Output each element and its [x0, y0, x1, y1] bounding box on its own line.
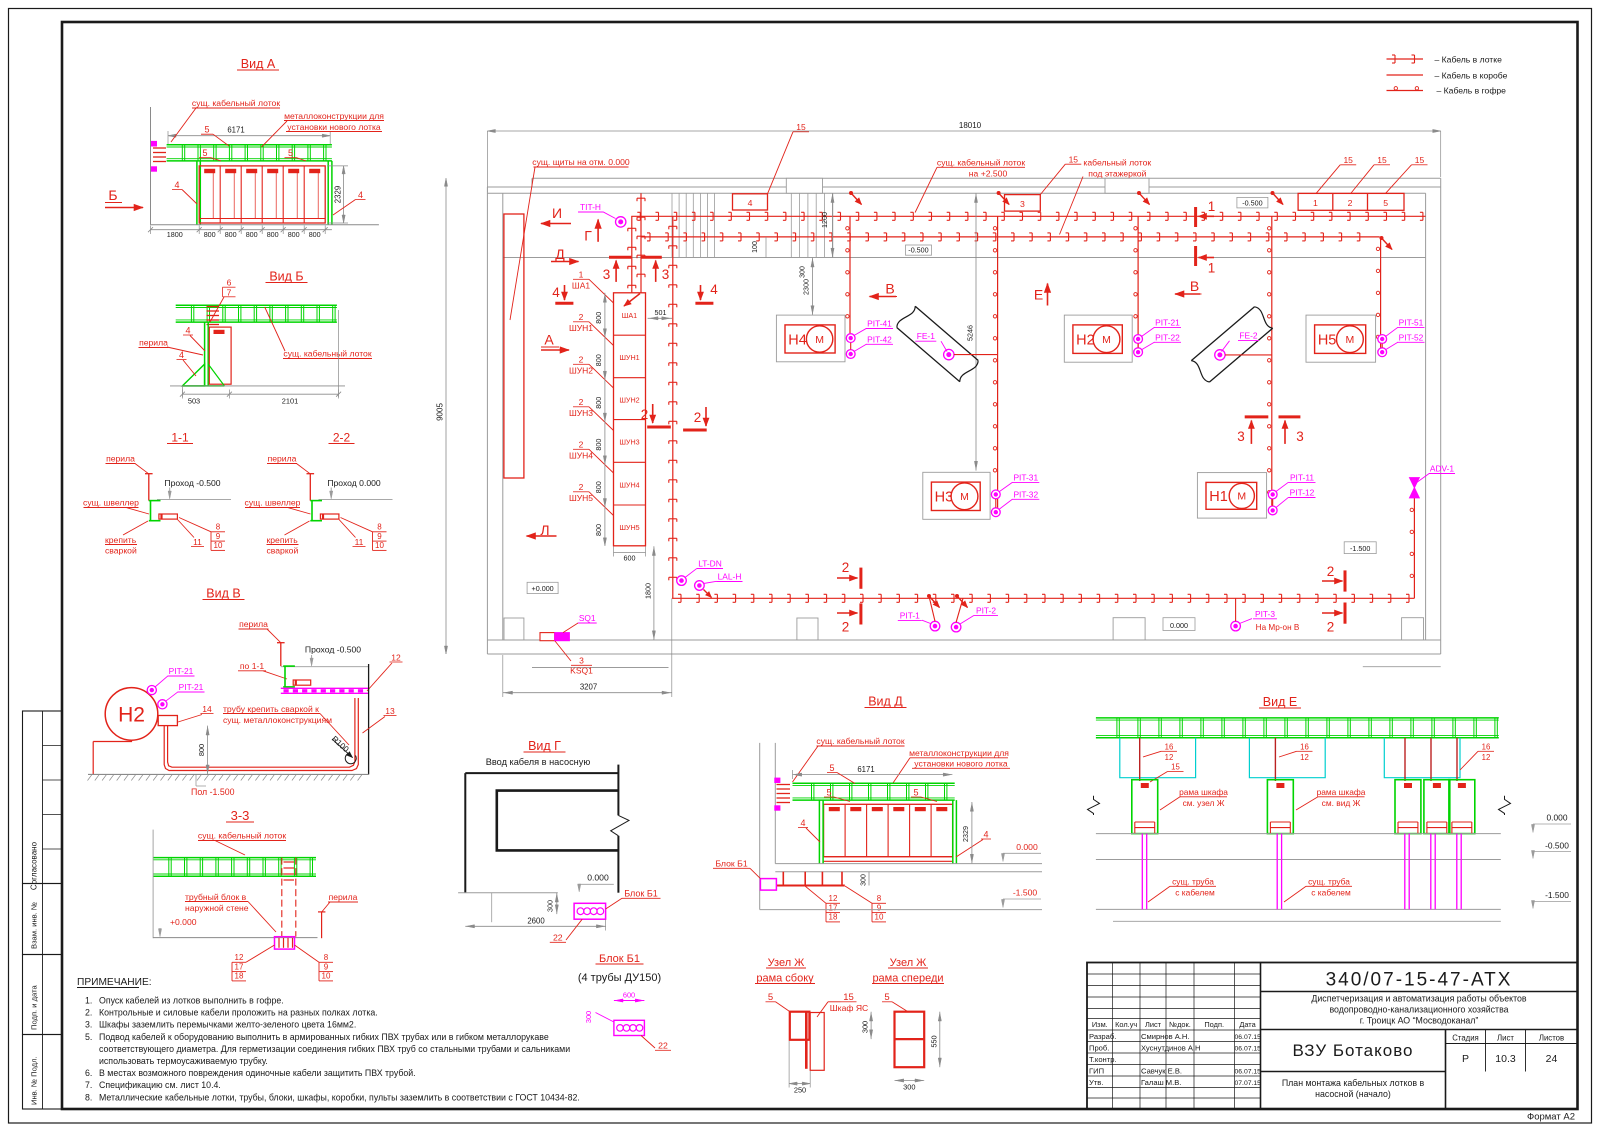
svg-text:4: 4 [800, 818, 805, 828]
svg-text:600: 600 [623, 991, 635, 1000]
svg-text:Лист: Лист [1145, 1020, 1162, 1029]
plan motor H5 [1306, 315, 1376, 362]
svg-text:Блок Б1: Блок Б1 [599, 953, 640, 965]
svg-text:300: 300 [800, 266, 807, 278]
plan bottom wall [487, 639, 1440, 641]
svg-text:Т.контр.: Т.контр. [1089, 1055, 1117, 1064]
svg-text:18010: 18010 [959, 121, 982, 130]
svg-text:сущ. кабельный лоток: сущ. кабельный лоток [192, 98, 280, 108]
plan level 0.000 [1163, 618, 1195, 631]
svg-text:3-3: 3-3 [231, 808, 250, 823]
svg-text:15: 15 [843, 992, 854, 1003]
plan level -0.500 a [906, 245, 932, 255]
legend cable in tray [1387, 58, 1424, 60]
view D conduit block magenta [760, 879, 776, 891]
plan instrument FE-1 [944, 349, 954, 359]
svg-text:Вид Б: Вид Б [269, 270, 303, 284]
svg-text:В: В [1190, 278, 1199, 294]
svg-text:План монтажа кабельных лотков: План монтажа кабельных лотков в [1282, 1078, 1425, 1088]
svg-text:на +2.500: на +2.500 [969, 168, 1008, 178]
svg-text:с кабелем: с кабелем [1311, 888, 1351, 898]
view V channel [283, 665, 295, 667]
svg-text:ГИП: ГИП [1089, 1067, 1104, 1076]
section 3-3 floor line [153, 937, 317, 939]
svg-text:Спецификацию см. лист 10.4.: Спецификацию см. лист 10.4. [99, 1080, 221, 1090]
svg-text:№док.: №док. [1169, 1020, 1191, 1029]
node Zh front frame [895, 1012, 925, 1067]
svg-text:4: 4 [185, 326, 190, 336]
view A ground line [151, 224, 379, 226]
svg-text:Н1: Н1 [1209, 489, 1228, 505]
svg-text:TIT-H: TIT-H [580, 202, 601, 212]
plan dim 501 [648, 317, 672, 319]
svg-text:сущ. кабельный лоток: сущ. кабельный лоток [937, 158, 1025, 168]
svg-text:перила: перила [106, 454, 135, 464]
svg-text:Н5: Н5 [1318, 333, 1337, 349]
svg-text:водопроводно-канализационного: водопроводно-канализационного хозяйства [1329, 1005, 1508, 1015]
svg-text:9: 9 [877, 903, 882, 912]
svg-text:крепить: крепить [105, 535, 137, 545]
svg-text:2: 2 [1348, 198, 1353, 208]
title block document number [1261, 991, 1578, 993]
svg-text:2-2: 2-2 [333, 431, 351, 445]
svg-text:PIT-11: PIT-11 [1290, 472, 1314, 482]
view A dim 6171 [168, 135, 330, 137]
svg-text:ШУН5: ШУН5 [569, 493, 593, 503]
svg-text:Г: Г [584, 228, 592, 244]
svg-text:сваркой: сваркой [267, 546, 299, 556]
svg-text:Проход -0.500: Проход -0.500 [305, 645, 361, 655]
svg-text:6171: 6171 [227, 126, 244, 135]
svg-text:800: 800 [288, 230, 300, 239]
svg-text:сущ. швеллер: сущ. швеллер [245, 498, 301, 508]
svg-text:PIT-2: PIT-2 [976, 606, 996, 616]
svg-text:800: 800 [225, 230, 237, 239]
svg-text:PIT-32: PIT-32 [1013, 489, 1038, 499]
svg-text:М: М [1102, 334, 1111, 346]
svg-text:1200: 1200 [820, 212, 829, 228]
section 3-3 tray ladder [153, 857, 316, 859]
plan drop to H4 (conduit) [849, 216, 851, 338]
section 3-3 wall conduit block [275, 937, 295, 949]
plan dim 3207 [503, 692, 672, 694]
svg-text:Металлические кабельные лотки,: Металлические кабельные лотки, трубы, бл… [99, 1092, 580, 1102]
svg-text:Д: Д [555, 246, 565, 262]
svg-text:-1.500: -1.500 [1350, 544, 1370, 553]
svg-text:Разраб.: Разраб. [1089, 1032, 1116, 1041]
svg-text:+0.000: +0.000 [532, 584, 554, 593]
svg-text:трубу крепить сваркой к: трубу крепить сваркой к [223, 704, 319, 714]
svg-text:– Кабель в лотке: – Кабель в лотке [1435, 55, 1503, 65]
svg-text:5: 5 [768, 992, 773, 1003]
node Zh front dim 300 bottom [895, 1080, 925, 1082]
view E cable tray ladder [1096, 717, 1499, 719]
svg-text:Вид Е: Вид Е [1263, 695, 1297, 709]
svg-text:800: 800 [594, 397, 603, 409]
svg-text:5: 5 [288, 148, 293, 158]
svg-text:2101: 2101 [282, 397, 298, 406]
svg-text:800: 800 [267, 230, 279, 239]
svg-text:8: 8 [216, 523, 221, 532]
svg-text:10: 10 [375, 541, 384, 550]
block B1 rect with pipes [614, 1020, 645, 1035]
node Zh side dim 250 [789, 1083, 810, 1085]
view D dim 6171 [793, 774, 953, 776]
node Zh front dim 300 left [870, 1012, 872, 1039]
svg-text:100: 100 [752, 241, 759, 253]
svg-text:Вид А: Вид А [241, 57, 276, 71]
view B bottom dims [182, 393, 338, 395]
svg-text:300: 300 [545, 900, 554, 912]
svg-text:06.07.15: 06.07.15 [1235, 1034, 1262, 1041]
svg-text:1.: 1. [85, 996, 92, 1006]
svg-text:ШУН2: ШУН2 [619, 396, 639, 405]
svg-text:Стадия: Стадия [1452, 1034, 1479, 1043]
svg-text:г. Троицк АО “Мосводоканал”: г. Троицк АО “Мосводоканал” [1360, 1016, 1479, 1026]
plan dim 5246 [975, 193, 977, 470]
svg-text:Б: Б [108, 187, 117, 203]
section 3-3 left extension line [152, 830, 154, 939]
svg-text:3: 3 [1296, 429, 1304, 444]
svg-text:сущ. металлоконструкциям: сущ. металлоконструкциям [223, 715, 332, 725]
svg-text:300: 300 [861, 874, 868, 886]
view B support triangle [182, 364, 204, 386]
svg-text:Н2: Н2 [118, 704, 145, 727]
svg-text:3: 3 [579, 656, 584, 666]
svg-text:FE-2: FE-2 [1239, 331, 1257, 341]
plan cabinet ША1 and ШУН1-5 column [614, 293, 646, 546]
svg-text:9: 9 [216, 532, 221, 541]
view A left support post [196, 161, 198, 225]
svg-text:15: 15 [796, 122, 806, 132]
plan dim 2300 [812, 258, 814, 316]
plan motor H1 [1197, 473, 1266, 518]
svg-text:ШУН3: ШУН3 [619, 438, 639, 447]
svg-text:PIT-41: PIT-41 [867, 319, 892, 329]
svg-text:Формат А2: Формат А2 [1527, 1112, 1575, 1123]
svg-text:15: 15 [1415, 155, 1425, 165]
svg-text:(4 трубы ДУ150): (4 трубы ДУ150) [578, 972, 661, 984]
svg-text:300: 300 [903, 1083, 915, 1092]
svg-text:перила: перила [268, 454, 297, 464]
view G dim 2600 [465, 925, 605, 927]
svg-text:Блок Б1: Блок Б1 [715, 859, 748, 869]
view A bottom dims [151, 229, 332, 231]
svg-text:18: 18 [235, 972, 244, 981]
svg-text:11: 11 [355, 537, 364, 547]
svg-text:KSQ1: KSQ1 [570, 665, 593, 675]
plan bottom cable tray [672, 597, 1414, 599]
svg-text:9: 9 [377, 532, 382, 541]
view E floor levels [1096, 833, 1501, 835]
svg-text:Подп. и дата: Подп. и дата [30, 984, 39, 1030]
svg-text:2329: 2329 [961, 826, 970, 842]
svg-text:установки нового лотка: установки нового лотка [914, 759, 1008, 769]
svg-text:1800: 1800 [167, 230, 183, 239]
svg-text:3: 3 [603, 267, 611, 282]
view G wall outline [465, 772, 618, 774]
svg-text:8: 8 [877, 894, 882, 903]
svg-text:15: 15 [1343, 155, 1353, 165]
svg-text:4: 4 [983, 830, 988, 840]
section 1-1 railing post [148, 474, 150, 501]
svg-text:сущ. швеллер: сущ. швеллер [83, 498, 139, 508]
svg-text:300: 300 [584, 1011, 593, 1023]
svg-text:На Мр-он В: На Мр-он В [1256, 623, 1300, 632]
plan section marker 1 upper [1194, 207, 1197, 227]
svg-text:Пол -1.500: Пол -1.500 [191, 787, 235, 797]
svg-text:1: 1 [1208, 261, 1216, 276]
plan dim 800 column [604, 293, 606, 546]
svg-text:см. вид Ж: см. вид Ж [1322, 798, 1361, 808]
svg-text:8: 8 [377, 523, 382, 532]
svg-text:Опуск кабелей из лотков выполн: Опуск кабелей из лотков выполнить в гофр… [99, 996, 284, 1006]
view E cabinet frames green [1132, 780, 1158, 834]
svg-text:PIT-22: PIT-22 [1155, 332, 1180, 342]
plan dim 1200 [832, 193, 834, 257]
svg-text:800: 800 [594, 312, 603, 324]
plan dim 1800 [653, 546, 655, 640]
svg-text:5246: 5246 [966, 325, 975, 341]
svg-text:12: 12 [235, 953, 244, 962]
svg-text:-0.500: -0.500 [908, 246, 928, 255]
svg-text:2: 2 [579, 397, 584, 407]
svg-text:15: 15 [1069, 154, 1079, 164]
view B ground line [170, 385, 345, 387]
sidebar column Подп. и дата [23, 955, 63, 1035]
svg-text:0.000: 0.000 [1170, 621, 1188, 630]
svg-text:сущ. щиты на отм. 0.000: сущ. щиты на отм. 0.000 [532, 157, 630, 167]
svg-text:Утв.: Утв. [1089, 1078, 1103, 1087]
title block outline [1087, 963, 1578, 1110]
svg-text:2: 2 [579, 312, 584, 322]
svg-text:5: 5 [829, 763, 834, 773]
view V pump base [92, 742, 94, 775]
svg-text:Инв. № Подл.: Инв. № Подл. [30, 1056, 39, 1105]
svg-text:4: 4 [710, 282, 718, 297]
svg-text:5.: 5. [85, 1032, 92, 1042]
svg-text:установки нового лотка: установки нового лотка [287, 122, 381, 132]
section 2-2 railing post [309, 474, 311, 501]
svg-text:07.07.15: 07.07.15 [1235, 1080, 1262, 1087]
svg-text:Проб.: Проб. [1089, 1044, 1109, 1053]
svg-text:3: 3 [1020, 199, 1025, 209]
svg-text:Лист: Лист [1497, 1034, 1514, 1043]
svg-text:22: 22 [658, 1041, 668, 1051]
svg-text:4: 4 [358, 190, 363, 200]
view A right support post [327, 161, 329, 225]
svg-text:2329: 2329 [334, 186, 343, 203]
svg-text:ШУН5: ШУН5 [619, 523, 639, 532]
svg-text:сущ. кабельный лоток: сущ. кабельный лоток [816, 736, 904, 746]
svg-text:2: 2 [579, 355, 584, 365]
view E magenta pipes [1141, 834, 1143, 910]
section 2-2 channel [310, 500, 322, 502]
plan section marker 3 pair at H1 [1245, 415, 1269, 418]
svg-text:ВЗУ Ботаково: ВЗУ Ботаково [1292, 1041, 1413, 1060]
svg-text:10: 10 [322, 972, 331, 981]
svg-text:PIT-21: PIT-21 [1155, 317, 1180, 327]
view V conduit pipe run [164, 698, 358, 771]
svg-text:рама спереди: рама спереди [872, 973, 943, 985]
svg-text:1-1: 1-1 [171, 431, 189, 445]
svg-text:16: 16 [1165, 743, 1174, 752]
svg-text:4: 4 [552, 285, 560, 300]
view B weld dashes [207, 306, 220, 308]
svg-text:ШУН2: ШУН2 [569, 366, 593, 376]
svg-text:7: 7 [227, 288, 232, 298]
svg-text:8.: 8. [85, 1092, 92, 1102]
svg-text:сущ. труба: сущ. труба [1172, 877, 1214, 887]
svg-text:7.: 7. [85, 1080, 92, 1090]
svg-text:1: 1 [1313, 198, 1318, 208]
svg-text:SQ1: SQ1 [579, 613, 596, 623]
svg-text:12: 12 [829, 894, 838, 903]
section 1-1 tray cross-section [159, 514, 178, 519]
view D right green post [952, 800, 954, 864]
svg-text:5: 5 [913, 788, 918, 798]
view A dim 2329 [343, 166, 345, 223]
svg-text:18: 18 [829, 913, 838, 922]
svg-text:6171: 6171 [857, 765, 874, 774]
plan platform edge line [503, 257, 1426, 259]
svg-text:М: М [960, 491, 969, 503]
svg-text:0.000: 0.000 [587, 873, 609, 883]
svg-text:8: 8 [324, 953, 329, 962]
plan left wall [486, 187, 488, 654]
view E cable drops dark red [1139, 738, 1141, 781]
plan dim 600 [614, 552, 646, 554]
svg-text:Шкаф ЯС: Шкаф ЯС [830, 1003, 868, 1013]
svg-text:2: 2 [579, 440, 584, 450]
svg-text:501: 501 [655, 308, 667, 317]
plan arrow into ША1 [624, 294, 640, 307]
view E break marks [1088, 796, 1100, 815]
svg-text:800: 800 [594, 524, 603, 536]
title block object name ВЗУ Ботаково [1261, 1071, 1446, 1073]
svg-text:В местах возможного повреждени: В местах возможного повреждения одиночны… [99, 1068, 416, 1078]
view G conduit block Б1 [574, 903, 606, 919]
svg-text:Согласовано: Согласовано [30, 841, 39, 890]
svg-text:В: В [885, 281, 894, 297]
node Zh front dim 550 right [939, 1012, 941, 1067]
view V junction box pos 14 [158, 716, 177, 726]
svg-text:ШУН3: ШУН3 [569, 408, 593, 418]
svg-text:Е: Е [1034, 287, 1043, 303]
svg-text:800: 800 [204, 230, 216, 239]
view D wall anchor [775, 778, 780, 782]
svg-text:3: 3 [1237, 429, 1245, 444]
svg-text:800: 800 [309, 230, 321, 239]
svg-text:М: М [1237, 491, 1246, 503]
svg-text:+0.000: +0.000 [170, 917, 197, 927]
plan top wall [532, 177, 1441, 179]
svg-text:перила: перила [139, 338, 168, 348]
view D lower tray comb [776, 885, 844, 887]
sidebar column Взам. инв. № [23, 884, 63, 955]
svg-text:24: 24 [1546, 1053, 1558, 1065]
plan valve ADV-1 [1410, 478, 1420, 488]
svg-text:FE-1: FE-1 [917, 331, 935, 341]
svg-text:3.: 3. [85, 1020, 92, 1030]
plan section marker 3 pair at ША1 [609, 256, 631, 259]
svg-text:2: 2 [1327, 564, 1335, 579]
plan vertical tray riser x672 [672, 216, 674, 598]
svg-text:5: 5 [204, 125, 209, 135]
svg-text:300: 300 [861, 1021, 870, 1033]
plan level -0.500 b [1237, 197, 1268, 208]
svg-text:Вид В: Вид В [206, 587, 240, 601]
svg-text:М: М [815, 334, 824, 346]
svg-text:Кол.уч: Кол.уч [1115, 1020, 1137, 1029]
svg-text:ША1: ША1 [622, 311, 637, 320]
svg-text:PIT-42: PIT-42 [867, 334, 892, 344]
svg-text:12: 12 [1482, 753, 1491, 762]
svg-text:Савчук Е.В.: Савчук Е.В. [1141, 1067, 1182, 1076]
svg-text:2: 2 [579, 482, 584, 492]
svg-text:5: 5 [202, 148, 207, 158]
svg-text:Шкафы заземлить перемычками же: Шкафы заземлить перемычками желто-зелено… [99, 1020, 356, 1030]
svg-text:Н3: Н3 [935, 490, 954, 506]
svg-text:насосной (начало): насосной (начало) [1315, 1089, 1391, 1099]
plan motor H4 [776, 315, 845, 362]
section 3-3 dashed conduit block [281, 858, 283, 937]
view G ground line [458, 892, 558, 894]
svg-text:ШУН4: ШУН4 [569, 451, 593, 461]
section 3-3 railing post [321, 912, 323, 938]
svg-text:использовать термоусаживаемую: использовать термоусаживаемую трубку. [99, 1056, 268, 1066]
svg-text:LAL-H: LAL-H [718, 572, 742, 582]
svg-text:Н4: Н4 [788, 332, 807, 348]
view V floor line with hatching [88, 773, 369, 775]
plan flag FE-2 [1191, 307, 1254, 361]
svg-text:крепить: крепить [267, 535, 299, 545]
svg-text:Проход -0.500: Проход -0.500 [164, 478, 220, 488]
svg-text:4: 4 [748, 198, 753, 208]
svg-text:– Кабель в коробе: – Кабель в коробе [1435, 71, 1508, 81]
plan top wall door opening 1 [786, 178, 822, 193]
svg-text:ША1: ША1 [572, 281, 590, 291]
svg-text:ПРИМЕЧАНИЕ:: ПРИМЕЧАНИЕ: [77, 977, 152, 988]
plan level -1.500 [1344, 542, 1376, 554]
title block project description [1261, 1029, 1578, 1031]
svg-text:трубный блок в: трубный блок в [185, 892, 247, 902]
view D dim 300 [868, 872, 870, 886]
svg-text:PIT-1: PIT-1 [900, 610, 920, 620]
svg-text:наружной стене: наружной стене [185, 903, 249, 913]
svg-text:Галаш М.В.: Галаш М.В. [1141, 1078, 1181, 1087]
svg-text:600: 600 [624, 554, 636, 563]
legend cable in duct [1387, 74, 1424, 76]
svg-text:5: 5 [884, 992, 889, 1003]
svg-text:4: 4 [179, 350, 184, 360]
view D bottom line [760, 909, 1042, 911]
svg-text:PIT-12: PIT-12 [1290, 488, 1315, 498]
svg-text:4: 4 [174, 180, 179, 190]
svg-text:-1.500: -1.500 [1013, 888, 1038, 898]
svg-text:6.: 6. [85, 1068, 92, 1078]
svg-text:металлоконструкции для: металлоконструкции для [909, 748, 1009, 758]
view V dim 800 [207, 726, 209, 775]
view V railing post [280, 643, 282, 666]
svg-text:12: 12 [1300, 753, 1309, 762]
svg-text:Р: Р [1462, 1053, 1469, 1065]
svg-text:Хуснутдинов А.Н: Хуснутдинов А.Н [1141, 1044, 1201, 1053]
svg-text:2600: 2600 [527, 916, 545, 925]
svg-text:Узел Ж: Узел Ж [890, 957, 927, 969]
node Zh side cabinet ЯС [810, 1013, 824, 1071]
svg-text:1: 1 [579, 270, 584, 280]
